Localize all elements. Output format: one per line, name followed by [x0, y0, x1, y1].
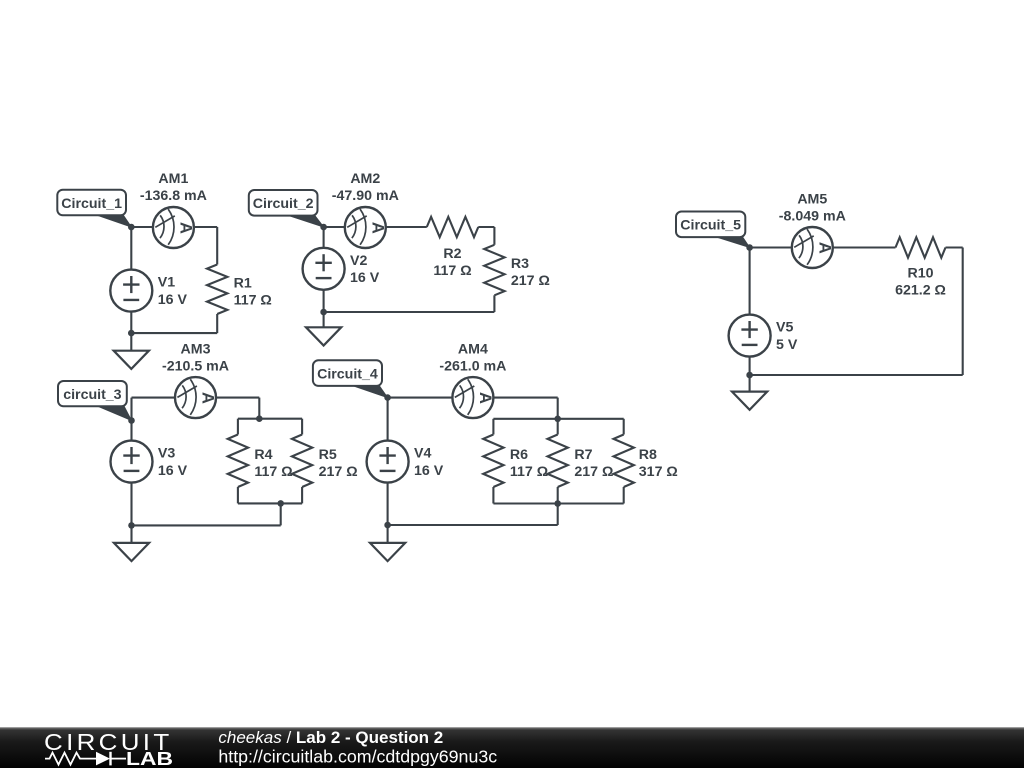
svg-text:-136.8 mA: -136.8 mA [140, 188, 207, 204]
wire [557, 504, 559, 526]
resistor R5 labels [319, 447, 358, 480]
svg-text:AM4: AM4 [458, 342, 488, 358]
svg-text:R7: R7 [574, 447, 592, 463]
svg-text:AM5: AM5 [797, 192, 827, 208]
voltage source V5 [729, 315, 771, 357]
svg-text:A: A [368, 222, 386, 234]
svg-text:A: A [199, 392, 217, 404]
svg-text:217 Ω: 217 Ω [319, 464, 358, 480]
wire [386, 226, 427, 228]
wire [493, 418, 623, 420]
wire [623, 487, 625, 504]
wire [130, 398, 132, 441]
svg-text:R4: R4 [254, 447, 272, 463]
wire [557, 419, 559, 435]
svg-text:Circuit_5: Circuit_5 [680, 218, 741, 234]
svg-text:A: A [476, 392, 494, 404]
svg-text:16 V: 16 V [414, 463, 444, 479]
wire [237, 487, 239, 503]
net-name flag Circuit_4 [313, 360, 388, 397]
wire [324, 311, 495, 313]
wire [493, 502, 623, 504]
circuit 3 group [58, 342, 358, 561]
node top junction [384, 394, 391, 401]
logo resistor zigzag [45, 753, 96, 765]
svg-text:-47.90 mA: -47.90 mA [332, 188, 399, 204]
net-name flag Circuit_1 [57, 190, 131, 227]
wire [494, 397, 558, 399]
voltage source V3 [111, 441, 153, 483]
svg-text:LAB: LAB [126, 748, 173, 768]
source V2 labels [350, 253, 380, 286]
wire [946, 246, 963, 248]
ground [370, 543, 405, 561]
ammeter AM4 labels [439, 342, 506, 375]
voltage source V4 [367, 441, 409, 483]
wire [749, 248, 751, 315]
wire [132, 397, 176, 399]
wire [749, 357, 751, 392]
resistor R8 labels [639, 447, 678, 480]
wire [324, 226, 345, 228]
svg-text:621.2 Ω: 621.2 Ω [895, 283, 946, 299]
wire [216, 314, 218, 333]
svg-text:circuit_3: circuit_3 [63, 387, 121, 403]
svg-text:R2: R2 [443, 246, 461, 262]
wire [962, 248, 964, 376]
node top-left junction [128, 224, 135, 231]
wire [387, 398, 389, 441]
source V1 labels [158, 275, 188, 308]
wire [258, 398, 260, 419]
source V4 labels [414, 446, 444, 479]
svg-text:R1: R1 [234, 275, 252, 291]
net-name flag Circuit_5 [676, 212, 750, 248]
wire [388, 397, 453, 399]
wire [557, 398, 559, 419]
wire [130, 227, 132, 270]
svg-text:R8: R8 [639, 447, 657, 463]
net-name flag Circuit_2 [249, 190, 324, 227]
svg-text:R6: R6 [510, 447, 528, 463]
wire [130, 312, 132, 351]
wire [237, 419, 239, 435]
svg-text:R3: R3 [511, 256, 529, 272]
circuit 5 group [676, 192, 963, 410]
ammeter AM5 [792, 227, 834, 268]
resistor R1 labels [234, 275, 272, 308]
ammeter AM1 labels [140, 171, 207, 204]
ground [732, 392, 767, 410]
svg-text:V3: V3 [158, 446, 175, 462]
logo diode [96, 752, 126, 766]
svg-text:Circuit_4: Circuit_4 [317, 366, 378, 382]
wire [557, 487, 559, 504]
wire [238, 418, 302, 420]
resistor R1 zigzag [207, 265, 227, 315]
resistor R10 zigzag [896, 237, 946, 257]
voltage source V2 [303, 248, 345, 290]
svg-text:A: A [815, 242, 833, 254]
node bottom junction [746, 372, 753, 379]
svg-text:V1: V1 [158, 275, 175, 291]
node top junction [320, 224, 327, 231]
svg-text:-261.0 mA: -261.0 mA [439, 359, 506, 375]
wire [478, 226, 494, 228]
circuit 2 group [249, 171, 550, 346]
node bottom junction [320, 309, 327, 316]
wire [387, 483, 389, 543]
resistor R10 labels [895, 266, 946, 299]
wire [130, 483, 132, 543]
svg-text:317 Ω: 317 Ω [639, 464, 678, 480]
wire [492, 419, 494, 435]
wire [216, 227, 218, 265]
svg-text:V4: V4 [414, 446, 431, 462]
resistor R7 zigzag [548, 435, 568, 488]
circuit 1 group [57, 171, 272, 369]
svg-text:AM2: AM2 [350, 171, 380, 187]
voltage source V1 [110, 270, 152, 312]
node parallel bottom [277, 500, 284, 507]
svg-text:217 Ω: 217 Ω [574, 464, 613, 480]
wire [301, 419, 303, 435]
svg-text:AM1: AM1 [158, 171, 188, 187]
wire [131, 332, 217, 334]
wire [493, 227, 495, 245]
node bottom junction [128, 522, 135, 529]
ammeter AM3 labels [162, 342, 229, 375]
svg-text:16 V: 16 V [350, 270, 380, 286]
svg-text:V5: V5 [776, 320, 793, 336]
node parallel top [554, 416, 561, 423]
node label attach [128, 417, 135, 424]
svg-text:5 V: 5 V [776, 337, 798, 353]
node bottom junction [128, 330, 135, 337]
wire [492, 487, 494, 504]
wire [323, 227, 325, 248]
wire [388, 524, 558, 526]
wire [301, 487, 303, 503]
svg-text:R5: R5 [319, 447, 337, 463]
svg-text:16 V: 16 V [158, 292, 188, 308]
node top junction [746, 244, 753, 251]
resistor R8 zigzag [614, 435, 634, 488]
ground [306, 327, 341, 345]
svg-text:-210.5 mA: -210.5 mA [162, 359, 229, 375]
svg-text:V2: V2 [350, 253, 367, 269]
resistor R4 zigzag [228, 435, 248, 488]
net-name flag circuit_3 [58, 381, 132, 421]
footer bar [0, 727, 1024, 768]
ammeter AM1 [153, 207, 195, 248]
svg-text:117 Ω: 117 Ω [510, 464, 548, 480]
node parallel bottom [554, 500, 561, 507]
ammeter AM2 [345, 207, 387, 248]
resistor R4 labels [254, 447, 292, 480]
ammeter AM3 [175, 377, 217, 418]
svg-text:Circuit_1: Circuit_1 [61, 196, 122, 212]
ammeter AM4 [452, 377, 494, 418]
node bottom junction [384, 522, 391, 529]
resistor R3 labels [511, 256, 550, 289]
resistor R2 labels [433, 246, 471, 279]
svg-text:A: A [176, 222, 194, 234]
wire [493, 295, 495, 312]
svg-text:-8.049 mA: -8.049 mA [779, 208, 846, 224]
resistor R6 zigzag [483, 435, 503, 488]
svg-text:http://circuitlab.com/cdtdpgy6: http://circuitlab.com/cdtdpgy69nu3c [218, 747, 497, 767]
wire [132, 524, 281, 526]
wire [194, 226, 217, 228]
resistor R2 zigzag [427, 217, 479, 237]
svg-text:217 Ω: 217 Ω [511, 273, 550, 289]
wire [238, 502, 302, 504]
svg-text:117 Ω: 117 Ω [234, 293, 272, 309]
wire [623, 419, 625, 435]
wire [131, 226, 153, 228]
resistor R5 zigzag [292, 435, 312, 488]
resistor R6 labels [510, 447, 548, 480]
svg-text:16 V: 16 V [158, 463, 188, 479]
svg-text:AM3: AM3 [181, 342, 211, 358]
svg-text:Circuit_2: Circuit_2 [253, 196, 314, 212]
source V5 labels [776, 320, 798, 353]
wire [833, 246, 896, 248]
svg-text:117 Ω: 117 Ω [433, 263, 471, 279]
node parallel top [256, 415, 263, 422]
wire [750, 246, 792, 248]
circuit 4 group [313, 342, 678, 561]
wire [323, 290, 325, 327]
ground [114, 351, 149, 369]
resistor R7 labels [574, 447, 613, 480]
resistor R3 zigzag [484, 245, 504, 295]
source V3 labels [158, 446, 188, 479]
wire [216, 397, 259, 399]
svg-text:117 Ω: 117 Ω [254, 464, 292, 480]
ground [114, 543, 149, 561]
wire [280, 503, 282, 525]
wire [750, 374, 963, 376]
ammeter AM5 labels [779, 192, 846, 225]
svg-text:cheekas / Lab 2 - Question 2: cheekas / Lab 2 - Question 2 [218, 728, 443, 747]
ammeter AM2 labels [332, 171, 399, 204]
svg-text:R10: R10 [907, 266, 933, 282]
